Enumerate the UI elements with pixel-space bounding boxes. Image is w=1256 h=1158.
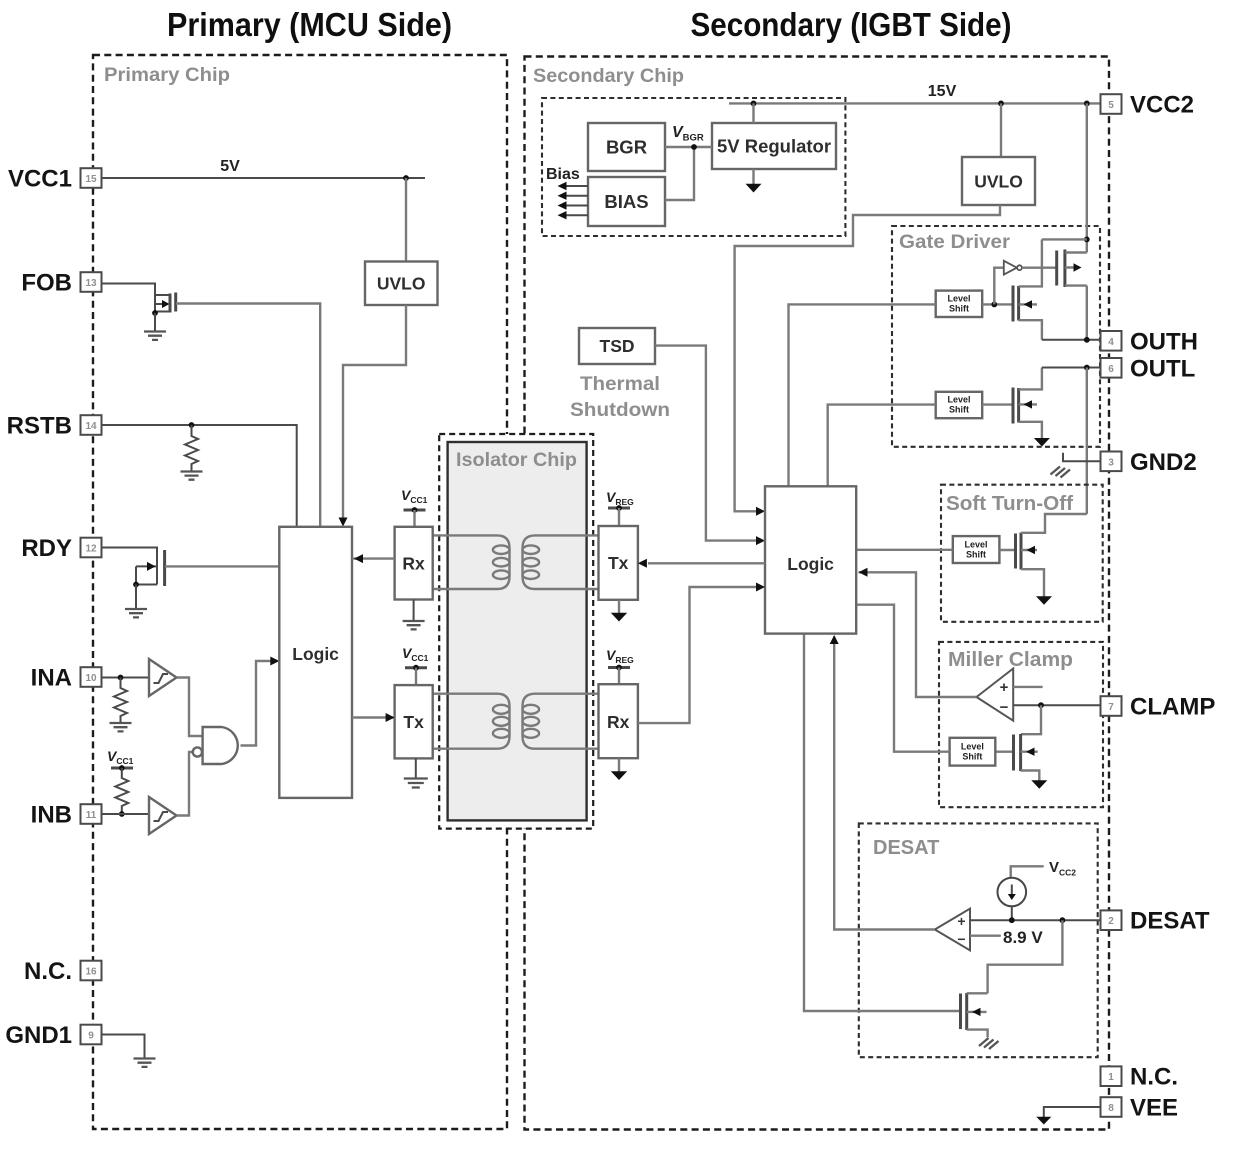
svg-text:14: 14 [85,421,97,432]
svg-text:1: 1 [1108,1072,1114,1083]
svg-text:9: 9 [88,1031,94,1042]
svg-text:VREG: VREG [606,489,634,507]
svg-text:RSTB: RSTB [7,413,72,440]
svg-text:VCC1: VCC1 [107,748,134,766]
svg-text:Soft Turn-Off: Soft Turn-Off [946,493,1073,515]
svg-text:12: 12 [85,544,97,555]
svg-text:N.C.: N.C. [24,958,72,985]
svg-text:−: − [1000,699,1009,716]
svg-text:8: 8 [1108,1103,1114,1114]
svg-text:UVLO: UVLO [377,274,426,294]
svg-text:15: 15 [85,174,97,185]
svg-text:Level: Level [947,294,970,304]
svg-text:Shift: Shift [962,752,982,762]
svg-text:OUTH: OUTH [1130,328,1198,355]
svg-text:2: 2 [1108,916,1114,927]
svg-text:BGR: BGR [606,137,647,158]
svg-text:13: 13 [85,278,97,289]
svg-text:VBGR: VBGR [672,124,704,144]
svg-text:Secondary Chip: Secondary Chip [533,65,684,87]
svg-text:RDY: RDY [21,535,72,562]
svg-text:VEE: VEE [1130,1095,1178,1122]
svg-text:CLAMP: CLAMP [1130,694,1215,721]
svg-text:VCC2: VCC2 [1130,92,1194,119]
svg-text:GND1: GND1 [5,1022,72,1049]
svg-text:Tx: Tx [608,553,629,573]
svg-text:+: + [957,913,965,929]
svg-text:3: 3 [1108,457,1114,468]
svg-text:Isolator Chip: Isolator Chip [456,449,577,471]
svg-text:UVLO: UVLO [974,172,1023,192]
svg-text:Shift: Shift [966,549,986,559]
svg-text:Rx: Rx [402,554,425,574]
svg-text:INB: INB [31,802,72,829]
svg-text:VCC1: VCC1 [8,166,72,193]
svg-text:Bias: Bias [546,166,580,183]
svg-text:Secondary (IGBT Side): Secondary (IGBT Side) [691,6,1012,43]
svg-text:Logic: Logic [787,554,834,574]
svg-text:VCC2: VCC2 [1049,859,1076,878]
svg-text:FOB: FOB [21,270,72,297]
svg-text:BIAS: BIAS [604,191,648,212]
svg-text:N.C.: N.C. [1130,1064,1178,1091]
svg-text:Level: Level [961,742,984,752]
svg-text:7: 7 [1108,702,1114,713]
svg-text:GND2: GND2 [1130,449,1197,476]
svg-text:VCC1: VCC1 [402,645,429,663]
svg-text:DESAT: DESAT [1130,908,1210,935]
svg-text:Shift: Shift [949,304,969,314]
svg-text:DESAT: DESAT [873,837,939,859]
svg-text:16: 16 [85,967,97,978]
svg-text:6: 6 [1108,364,1114,375]
svg-text:8.9 V: 8.9 V [1003,928,1043,947]
svg-text:4: 4 [1108,337,1114,348]
svg-text:10: 10 [85,673,97,684]
svg-text:Level: Level [947,395,970,405]
svg-text:Rx: Rx [607,712,630,732]
svg-text:Shift: Shift [949,405,969,415]
svg-text:Tx: Tx [403,712,424,732]
svg-text:OUTL: OUTL [1130,355,1195,382]
svg-text:+: + [1000,679,1009,696]
svg-text:Primary Chip: Primary Chip [104,64,230,86]
svg-text:Level: Level [964,539,987,549]
svg-text:Thermal: Thermal [580,373,660,395]
svg-text:Gate Driver: Gate Driver [899,232,1011,253]
svg-text:Miller Clamp: Miller Clamp [948,649,1073,671]
svg-text:−: − [957,931,965,947]
svg-text:Shutdown: Shutdown [570,399,670,421]
svg-text:VCC1: VCC1 [401,487,428,505]
svg-text:5V: 5V [220,158,240,175]
svg-text:Logic: Logic [292,644,339,664]
svg-text:VREG: VREG [606,647,634,665]
svg-text:5V Regulator: 5V Regulator [717,136,831,157]
svg-text:5: 5 [1108,100,1114,111]
svg-text:11: 11 [86,810,97,821]
svg-text:TSD: TSD [600,336,635,356]
svg-text:INA: INA [31,665,72,692]
svg-text:Primary (MCU Side): Primary (MCU Side) [167,6,452,43]
svg-text:15V: 15V [928,83,957,100]
